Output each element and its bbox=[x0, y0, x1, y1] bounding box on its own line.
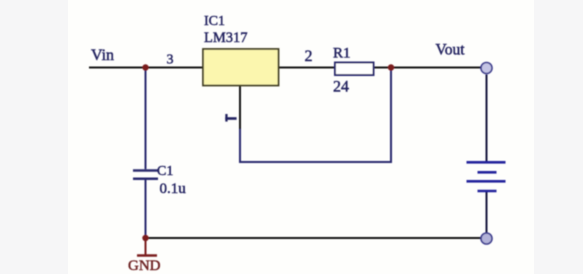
svg-text:3: 3 bbox=[167, 53, 174, 68]
svg-text:R1: R1 bbox=[333, 46, 351, 62]
svg-text:IC1: IC1 bbox=[204, 14, 225, 29]
svg-text:C1: C1 bbox=[157, 164, 173, 179]
svg-text:Vin: Vin bbox=[91, 47, 114, 64]
svg-text:0.1u: 0.1u bbox=[160, 181, 187, 197]
svg-text:24: 24 bbox=[333, 79, 349, 96]
svg-text:GND: GND bbox=[128, 258, 161, 274]
svg-text:2: 2 bbox=[305, 48, 313, 65]
svg-text:Vout: Vout bbox=[436, 42, 466, 59]
svg-text:LM317: LM317 bbox=[204, 30, 248, 46]
